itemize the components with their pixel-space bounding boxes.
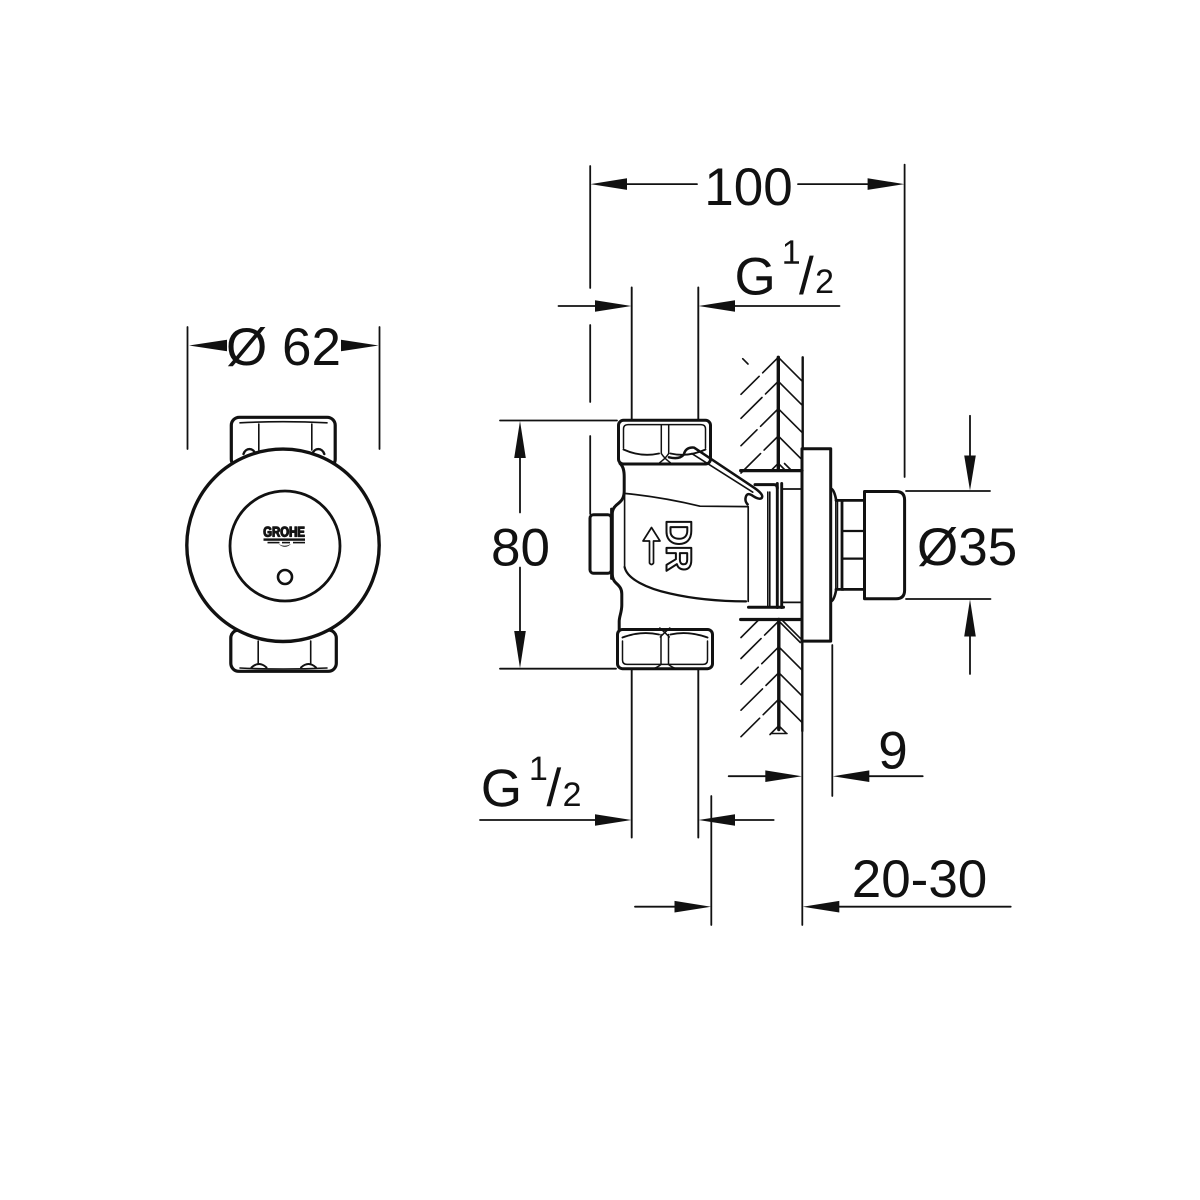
threaded stub behind wall — [782, 489, 802, 602]
wall hole bottom edge — [741, 618, 800, 621]
dimension 20-30 left extension — [710, 796, 712, 925]
dimension 9 right extension — [831, 645, 833, 796]
bottom union nut (front view) — [231, 630, 336, 671]
svg-text:Ø 62: Ø 62 — [226, 318, 341, 377]
dimension Ø62 arrow right — [341, 340, 379, 351]
seal washer dark double line — [777, 484, 781, 608]
dimension Ø62 extension line left — [187, 327, 189, 449]
body flat face silhouette — [624, 495, 626, 568]
dimension G1/2 bottom label — [484, 757, 580, 807]
knob rear collar shoulder top — [832, 489, 837, 501]
svg-text:80: 80 — [491, 519, 550, 578]
dimension 80 arrow up — [514, 421, 526, 513]
DR marking on body — [667, 522, 692, 571]
barrel end face — [747, 507, 749, 602]
top union nut (front view) — [231, 417, 335, 467]
side port ring — [610, 509, 613, 579]
wall hole top edge — [741, 469, 802, 472]
GROHE logo — [264, 527, 306, 547]
push knob — [865, 492, 905, 599]
dimension Ø62 arrow left — [189, 340, 227, 351]
casting rib cone — [669, 448, 762, 505]
wall face line upper — [802, 357, 804, 448]
dimension Ø35 arrow up — [964, 600, 976, 675]
union nut at wall — [749, 485, 784, 608]
knob hex adapter — [836, 500, 865, 589]
knob rear collar highlight lines — [836, 501, 838, 589]
dimension 20-30 arrow right — [803, 901, 1011, 913]
svg-text:20-30: 20-30 — [852, 850, 988, 909]
dimension G1/2 bottom dim line right — [699, 814, 774, 826]
dimension 80 extension top — [500, 420, 617, 422]
svg-text:Ø35: Ø35 — [917, 518, 1017, 577]
dimension 9 arrow left — [729, 770, 802, 782]
dimension G1/2 top dim line left — [559, 300, 632, 312]
knob inner circle (front view) — [230, 491, 340, 601]
dimension 100 arrow right — [798, 178, 904, 190]
sensor pin hole — [278, 570, 292, 584]
chevron hatch upper — [741, 357, 803, 473]
body left edge with side port step — [612, 464, 624, 630]
dimension G1/2 top label — [737, 240, 832, 295]
wall hatch spine lower — [777, 620, 780, 730]
dimension 100 extension line left (to side port face) — [589, 166, 591, 514]
dimension 100 arrow left — [591, 178, 698, 190]
upper fillet arc to barrel top — [626, 494, 749, 507]
dimension 20-30 arrow left — [635, 901, 711, 913]
dimension Ø35 extension bottom — [906, 598, 991, 600]
flow direction arrow on body — [643, 528, 660, 565]
wall upper part — [741, 357, 803, 473]
svg-text:9: 9 — [878, 722, 907, 781]
dimension G1/2 bottom dim line left — [480, 814, 632, 826]
wall face line lower — [801, 642, 803, 732]
dimension 9 arrow right — [833, 770, 923, 782]
dimension G1/2 top dim line right — [699, 300, 840, 312]
escutcheon outer circle (front view) — [187, 449, 379, 641]
dimension Ø35 arrow down — [964, 416, 976, 491]
valve top hex nut (section view) — [619, 420, 711, 464]
escutcheon flange (section) — [802, 449, 831, 641]
outlet pipe thread edges / G1/2 extension lines (bottom) — [631, 669, 633, 838]
dimension 20-30 right extension (wall face) — [801, 731, 803, 925]
valve body outline — [612, 464, 748, 630]
wall lower part — [741, 620, 803, 737]
dimension 80 arrow down — [514, 568, 526, 669]
lower fillet arc to barrel bottom — [625, 567, 746, 601]
svg-text:100: 100 — [704, 158, 792, 217]
side port cap — [590, 515, 611, 573]
inlet pipe thread edges / G1/2 extension lines (top) — [631, 288, 633, 421]
knob rear collar shoulder bottom — [832, 589, 837, 601]
dimension 80 extension bottom — [500, 668, 616, 670]
chevron hatch lower — [741, 621, 802, 737]
wall hatch spine upper — [777, 357, 780, 469]
valve bottom hex nut (section view) — [618, 628, 713, 669]
dimension Ø62 extension line right — [379, 327, 381, 449]
dimension 100 extension line right (to knob face) — [904, 165, 906, 477]
dimension Ø35 extension top — [906, 490, 990, 492]
